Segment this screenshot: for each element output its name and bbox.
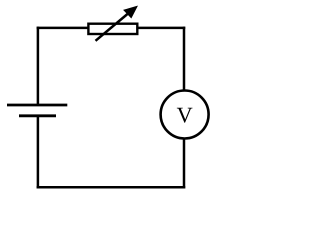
voltmeter circle bbox=[161, 91, 209, 139]
wire right upper bbox=[183, 27, 186, 92]
wire top-right segment bbox=[137, 27, 185, 30]
battery cell long plate bbox=[7, 104, 67, 107]
variable resistor arrow shaft bbox=[96, 12, 130, 41]
wire left lower bbox=[37, 116, 40, 189]
wire bottom bbox=[37, 186, 186, 189]
voltmeter label V bbox=[177, 108, 193, 123]
wire left upper bbox=[37, 27, 40, 105]
variable resistor body bbox=[88, 24, 137, 34]
variable resistor arrowhead bbox=[124, 6, 137, 17]
battery cell short plate bbox=[19, 114, 56, 117]
wire top-left segment bbox=[37, 27, 89, 30]
wire right lower bbox=[183, 138, 186, 189]
